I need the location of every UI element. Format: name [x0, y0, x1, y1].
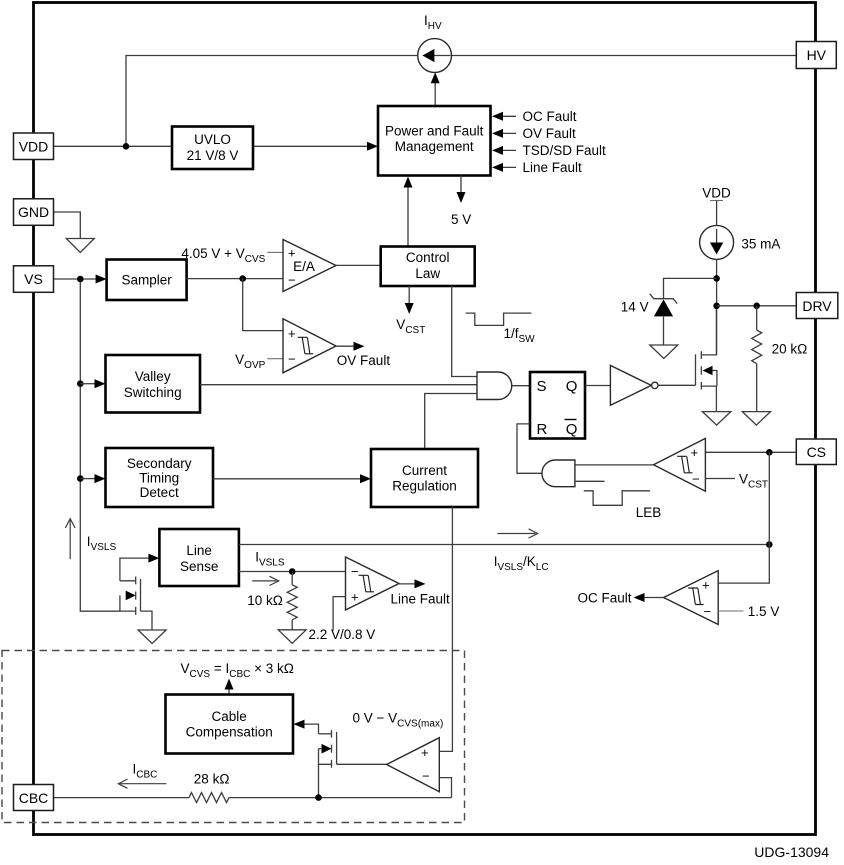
pin VDD — [14, 133, 54, 160]
svg-text:UVLO: UVLO — [194, 132, 231, 147]
wire PWM comparator output to LEB AND gate — [575, 464, 654, 466]
Line Sense block — [159, 529, 239, 586]
pin CS — [796, 439, 836, 465]
wire DRV node to DRV pin — [717, 305, 800, 307]
wire Control Law bottom to AND gate top input — [452, 286, 477, 377]
svg-text:Sense: Sense — [180, 559, 218, 574]
node CBC junction dot — [315, 794, 322, 801]
OV Fault output arrow — [336, 345, 355, 347]
transistor Q3 cable compensation MOSFET — [319, 730, 387, 768]
wire IHV source to HV pin — [451, 55, 800, 57]
label 2.2 V/0.8 V threshold with wire to comparator plus input — [333, 597, 345, 631]
svg-text:10 kΩ: 10 kΩ — [247, 593, 283, 608]
Sampler block — [107, 260, 187, 301]
wire node A up and over to IHV current source — [126, 56, 418, 147]
OC Fault input arrow into PFM — [494, 115, 516, 117]
current source IHV circle — [418, 39, 452, 73]
UVLO block — [172, 127, 253, 170]
comparator Line Fault with hysteresis — [346, 557, 400, 610]
svg-text:−: − — [351, 564, 359, 579]
Current Regulation block — [371, 449, 478, 507]
ground below power MOSFET — [702, 412, 730, 426]
waveform 1/fsw switching frequency — [466, 313, 532, 325]
node VS junction dot — [77, 276, 84, 283]
wire PFM bottom to Control Law top — [407, 182, 409, 247]
svg-text:+: + — [288, 326, 296, 341]
transistor Q1 power MOSFET — [696, 308, 717, 412]
svg-text:UDG-13094: UDG-13094 — [754, 844, 829, 860]
svg-text:28 kΩ: 28 kΩ — [194, 772, 230, 787]
svg-text:Line Fault: Line Fault — [523, 160, 583, 175]
wire UVLO to Power and Fault Management — [253, 145, 376, 147]
svg-text:14 V: 14 V — [621, 300, 649, 315]
svg-text:GND: GND — [18, 204, 49, 220]
wire Sampler to E/A inverting input — [187, 278, 283, 280]
current direction arrow right — [252, 580, 276, 582]
VCST output arrow below Control Law — [408, 286, 410, 307]
pin HV — [796, 42, 836, 69]
svg-text:+: + — [351, 590, 359, 605]
pin VS — [14, 266, 54, 293]
node CS junction dot — [766, 449, 773, 456]
Secondary Timing Detect block — [106, 448, 214, 507]
svg-text:LEB: LEB — [636, 505, 662, 520]
svg-text:+: + — [691, 445, 699, 460]
wire Line Sense lower output to Line Fault comparator — [239, 571, 346, 573]
svg-text:HV: HV — [807, 47, 827, 63]
wire LEB AND output to SR latch R input — [517, 424, 542, 473]
svg-text:Q: Q — [566, 378, 578, 395]
svg-text:2.2 V/0.8 V: 2.2 V/0.8 V — [309, 627, 376, 642]
wire inverter to power MOSFET gate — [658, 384, 696, 386]
node secondary timing junction dot on VS bus — [77, 475, 84, 482]
pin DRV — [796, 293, 838, 319]
svg-text:+: + — [421, 745, 429, 760]
svg-text:DRV: DRV — [802, 298, 832, 314]
node A junction dot on VDD wire — [123, 143, 130, 150]
svg-text:Regulation: Regulation — [392, 479, 457, 494]
Line Fault output arrow — [399, 583, 416, 585]
svg-text:Sampler: Sampler — [121, 273, 172, 288]
svg-text:+: + — [702, 578, 710, 593]
svg-text:Power and Fault: Power and Fault — [385, 124, 484, 139]
label IVSLS up arrow current direction — [69, 520, 71, 559]
wire Line Sense upper output long run to right — [239, 544, 769, 546]
svg-text:Cable: Cable — [212, 709, 247, 724]
label VOVP with tick into OV comparator minus input — [267, 358, 283, 360]
svg-text:5 V: 5 V — [451, 212, 471, 227]
svg-text:E/A: E/A — [293, 259, 315, 274]
SR latch block — [530, 372, 585, 439]
arrow into Secondary Timing Detect — [80, 478, 95, 480]
wire CS pin to PWM comparator plus input — [705, 451, 800, 453]
AND gate LEB blanking (mirrored, output left) — [542, 460, 575, 487]
node DRV junction dot — [713, 303, 720, 310]
comparator PWM current sense (left pointing) — [654, 438, 706, 491]
svg-text:R: R — [537, 421, 548, 438]
OV Fault input arrow into PFM — [494, 132, 516, 134]
node sampler output junction dot — [239, 275, 246, 282]
LEB gate second input stub — [575, 480, 605, 482]
svg-text:OV Fault: OV Fault — [337, 353, 391, 368]
comparator OV with hysteresis — [283, 319, 336, 373]
Line Fault input arrow into PFM — [494, 166, 516, 168]
wire GND pin to ground — [54, 212, 80, 238]
TSD/SD Fault input arrow into PFM — [494, 149, 516, 151]
Cable Compensation block — [166, 695, 294, 754]
node long wire junction dot — [766, 541, 773, 548]
svg-text:−: − — [422, 769, 430, 784]
inverter gate driver — [610, 365, 651, 405]
ground below zener — [650, 345, 678, 359]
AND gate U1 — [477, 372, 512, 400]
wire AND gate to SR latch S input — [512, 385, 530, 387]
svg-text:VDD: VDD — [19, 138, 49, 154]
wire op-amp minus feedback to CBC node — [439, 778, 451, 798]
node 10k junction dot — [289, 568, 296, 575]
wire node to zener top — [664, 278, 717, 298]
transistor Q2 line sense MOSFET — [120, 554, 159, 630]
wire E/A output to Control Law — [336, 264, 381, 266]
label 1.5 V with tick into OC comparator minus input — [718, 610, 743, 612]
label 4.05 V + VCVS with tick into E/A plus input — [267, 251, 283, 253]
op-amp E/A error amplifier — [283, 240, 336, 292]
arrowhead into PFM left — [367, 142, 378, 151]
node below 35 mA source — [713, 275, 720, 282]
comparator OC Fault (left pointing) — [664, 571, 719, 625]
VCVS output arrow above Cable Compensation — [228, 686, 230, 695]
svg-text:Detect: Detect — [140, 485, 179, 500]
ground below 20 kOhm — [742, 412, 770, 426]
Valley Switching block — [106, 355, 201, 413]
ground symbol for GND pin — [66, 239, 94, 253]
wire 35 mA source down to DRV node and MOSFET drain — [716, 259, 718, 355]
waveform LEB pulse — [584, 491, 650, 506]
node valley junction dot on VS bus — [77, 380, 84, 387]
svg-text:CBC: CBC — [19, 790, 49, 806]
wire Current Regulation bottom to cable comp op-amp plus input — [439, 507, 452, 751]
svg-text:Q: Q — [566, 421, 578, 438]
wire node down to OV comparator plus input — [243, 279, 283, 331]
svg-text:−: − — [288, 352, 296, 367]
resistor 10 kOhm — [287, 572, 297, 630]
svg-text:VDD: VDD — [702, 186, 731, 201]
arrow into Valley Switching — [80, 383, 95, 385]
arrow from cable comp MOSFET into block right edge — [304, 724, 319, 734]
svg-text:Current: Current — [402, 463, 447, 478]
pin GND — [14, 199, 54, 226]
svg-text:−: − — [288, 273, 296, 288]
svg-text:Control: Control — [406, 250, 450, 265]
pin CBC — [14, 785, 54, 811]
resistor 28 kOhm — [189, 793, 229, 803]
wire STD to Current Regulation — [213, 478, 361, 480]
wire CBC pin to resistor and node — [54, 797, 189, 799]
svg-text:Switching: Switching — [124, 385, 182, 400]
svg-text:Law: Law — [415, 266, 440, 281]
svg-text:Valley: Valley — [135, 369, 171, 384]
wire resistor to op-amp feedback node — [229, 797, 452, 799]
svg-text:TSD/SD Fault: TSD/SD Fault — [523, 143, 607, 158]
wire Valley Switching to AND gate middle input — [200, 384, 477, 386]
wire VDD to 35 mA source — [716, 201, 718, 226]
wire Current Regulation top to AND gate bottom input — [425, 394, 477, 450]
VS bus vertical wire — [80, 279, 120, 611]
wire PFM top to IHV source bottom — [434, 74, 436, 106]
op-amp cable compensation (left pointing) — [387, 738, 440, 792]
node 20k junction dot — [753, 303, 760, 310]
arrowhead up into IHV source — [431, 72, 440, 83]
svg-text:Line Fault: Line Fault — [391, 592, 451, 607]
svg-text:VS: VS — [24, 271, 43, 287]
Control Law block — [381, 247, 475, 287]
svg-text:OC Fault: OC Fault — [523, 109, 577, 124]
Power and Fault Management block — [378, 106, 491, 176]
wire CS node down to OC comparator plus input — [718, 452, 769, 583]
ground below line sense MOSFET — [138, 630, 166, 644]
svg-text:35 mA: 35 mA — [741, 237, 780, 252]
zener diode 14 V — [650, 294, 677, 345]
svg-text:Management: Management — [395, 139, 474, 154]
svg-text:CS: CS — [807, 444, 826, 460]
svg-text:21 V/8 V: 21 V/8 V — [187, 148, 239, 163]
wire cable comp MOSFET source down to CBC wire node — [318, 764, 320, 797]
wire VDD pin to UVLO — [54, 145, 172, 147]
ground below 10 kOhm — [278, 630, 306, 644]
svg-text:OV Fault: OV Fault — [523, 126, 577, 141]
svg-text:S: S — [537, 378, 547, 395]
svg-text:−: − — [704, 604, 712, 619]
svg-text:Line: Line — [186, 543, 212, 558]
svg-text:−: − — [692, 472, 700, 487]
label VCST with tick into PWM comparator minus input — [705, 478, 735, 480]
svg-text:Timing: Timing — [139, 471, 179, 486]
svg-text:1.5 V: 1.5 V — [748, 604, 780, 619]
wire SR latch Q to inverter — [585, 385, 610, 387]
current source 35 mA — [700, 225, 734, 259]
current direction arrow above IVSLS/KLC wire — [497, 533, 535, 535]
svg-text:Secondary: Secondary — [127, 456, 192, 471]
svg-text:Compensation: Compensation — [186, 725, 273, 740]
OC Fault output arrow pointing left — [644, 597, 664, 599]
svg-text:OC Fault: OC Fault — [578, 591, 632, 606]
5 V output arrow from PFM bottom — [460, 176, 462, 197]
svg-text:20 kΩ: 20 kΩ — [772, 342, 808, 357]
dashed cable compensation boundary — [2, 651, 465, 823]
resistor 20 kOhm — [752, 306, 762, 411]
wire VS pin to Sampler — [54, 278, 96, 280]
